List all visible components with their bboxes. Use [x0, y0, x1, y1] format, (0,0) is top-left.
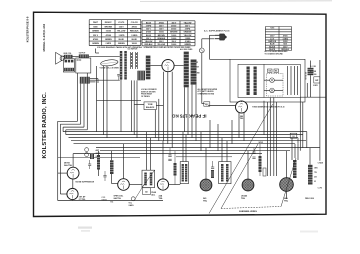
svg-text:F4: F4 — [293, 135, 295, 138]
resistor R-F (speaker field) — [308, 68, 314, 75]
svg-text:VOL: VOL — [129, 203, 132, 205]
wire bus 2 — [66, 134, 303, 136]
svg-text:BALANCE: BALANCE — [146, 106, 155, 109]
capacitor near gang — [117, 74, 120, 76]
wire plug lead along power unit top — [210, 58, 231, 60]
tapped winding strip S2 — [191, 60, 197, 85]
svg-text:350 V: 350 V — [185, 25, 190, 27]
power unit outer box — [230, 59, 305, 102]
svg-text:2MF: 2MF — [315, 80, 318, 82]
svg-text:TONE: TONE — [148, 104, 154, 106]
wire IF1 top stubs — [146, 132, 148, 171]
parts table 2 cell text — [144, 21, 192, 46]
svg-text:47000: 47000 — [132, 25, 137, 28]
svg-text:47000: 47000 — [171, 24, 176, 27]
svg-text:350 V: 350 V — [159, 25, 164, 27]
gang pointer line — [134, 181, 147, 201]
switch contact column 1 — [130, 52, 132, 69]
svg-text:GREEN: GREEN — [184, 44, 191, 46]
wire V5 top stub — [205, 148, 207, 180]
wire V4b top stub — [162, 141, 164, 179]
svg-text:KOLSTER RADIO, INC.: KOLSTER RADIO, INC. — [42, 92, 48, 159]
svg-text:AD: AD — [145, 190, 148, 193]
svg-text:MODEL K-130,K-132: MODEL K-130,K-132 — [42, 24, 46, 52]
wire bundle drop 3 — [83, 84, 85, 128]
svg-text:A.C. SUPPLEMENT PLUG: A.C. SUPPLEMENT PLUG — [204, 30, 230, 33]
svg-text:IF PEAK 175 KC: IF PEAK 175 KC — [171, 113, 206, 118]
wire strip drops — [184, 87, 186, 131]
coil strip S0 — [146, 56, 151, 80]
parts table 3 cell text — [268, 28, 289, 51]
svg-text:C-2 .5M: C-2 .5M — [310, 66, 316, 68]
fuse block on bus — [290, 133, 297, 138]
speaker coupling coil block — [64, 55, 73, 58]
small marks right of R4 — [263, 168, 266, 176]
svg-text:BROWN: BROWN — [158, 35, 166, 37]
voice coil oval — [100, 59, 118, 67]
wire caption stub — [95, 49, 97, 54]
svg-text:NOISE SUPPRESSOR: NOISE SUPPRESSOR — [76, 182, 95, 184]
svg-text:2 MFD: 2 MFD — [313, 85, 319, 87]
wire lamp leads — [264, 79, 270, 81]
wire bleeder feed — [309, 148, 311, 165]
svg-text:S-2 SWITCH: S-2 SWITCH — [128, 49, 139, 51]
capacitor cluster C3 — [168, 154, 171, 156]
wire V6 top stub — [247, 151, 249, 179]
grid resistor right of V7 — [293, 160, 297, 178]
wire stub row b — [176, 156, 232, 158]
svg-text:CHAS: CHAS — [318, 162, 324, 165]
svg-text:24A: 24A — [159, 195, 163, 198]
wire bus1 right drop — [306, 132, 308, 148]
page border frame — [34, 12, 327, 216]
svg-text:350 V: 350 V — [93, 35, 99, 37]
svg-text:350 V: 350 V — [171, 41, 176, 43]
wire V3 top stub — [123, 144, 125, 179]
svg-text:GREEN: GREEN — [92, 31, 99, 33]
svg-text:SUBPANEL WIRES: SUBPANEL WIRES — [239, 210, 257, 213]
svg-text:47000: 47000 — [283, 35, 288, 38]
svg-text:YELLOW: YELLOW — [117, 31, 125, 33]
resistor block under switch — [137, 71, 145, 81]
power unit divider — [263, 64, 265, 97]
wire V7 bottom stub — [286, 191, 288, 199]
svg-text:6500: 6500 — [283, 44, 287, 46]
svg-text:ORANGE: ORANGE — [157, 37, 166, 40]
wire V1 to V2 — [72, 179, 74, 188]
svg-text:2 MFD: 2 MFD — [185, 29, 191, 31]
svg-text:FIELD 2600: FIELD 2600 — [305, 198, 314, 200]
tuning gang strip 1 — [120, 51, 123, 80]
resistor R2 vertical — [110, 160, 114, 174]
wire bundle drop 2 — [80, 84, 82, 125]
svg-text:ORANGE: ORANGE — [184, 31, 193, 34]
svg-text:.5 MEG: .5 MEG — [282, 38, 288, 40]
svg-text:ANT: ANT — [96, 149, 100, 152]
svg-text:350 V: 350 V — [146, 38, 151, 40]
wire stub row a — [58, 157, 140, 159]
capacitor cluster C6 — [252, 151, 255, 153]
svg-text:YELLOW: YELLOW — [145, 41, 153, 43]
svg-text:BROWN: BROWN — [170, 32, 178, 34]
wire plug upper prong to chassis — [210, 34, 216, 36]
svg-text:180V: 180V — [314, 168, 319, 170]
rectifier tube V8 280 — [236, 101, 248, 113]
trimmer box under IF1 — [143, 188, 151, 195]
svg-text:BLUE: BLUE — [132, 39, 138, 41]
svg-text:SPKR COIL: SPKR COIL — [114, 196, 125, 198]
svg-text:125 V: 125 V — [159, 29, 164, 31]
long diagonal callout line — [209, 104, 273, 214]
svg-text:10000: 10000 — [132, 43, 137, 45]
component cluster C5 — [211, 166, 214, 168]
svg-text:DET.B: DET.B — [64, 163, 70, 165]
svg-text:YELLOW: YELLOW — [184, 35, 192, 37]
wire field coil leads east — [90, 78, 98, 80]
svg-text:RED-BLK: RED-BLK — [144, 44, 153, 46]
svg-text:C-15: C-15 — [102, 197, 106, 199]
svg-text:SWITCH SHOWN: SWITCH SHOWN — [141, 91, 156, 93]
faint page-top scan line — [140, 0, 332, 2]
tuning gang strip 2 — [124, 51, 127, 80]
svg-text:47000: 47000 — [171, 28, 176, 31]
svg-text:TML: TML — [241, 198, 246, 200]
tube V1 24A detector — [67, 167, 79, 179]
switch contact column 2 — [135, 52, 137, 69]
output choke coil block — [79, 54, 89, 58]
resistor R4 — [259, 156, 262, 172]
svg-text:BLACK: BLACK — [269, 45, 276, 48]
wire bus 3 — [69, 137, 299, 139]
oscillator tube V4 — [162, 60, 174, 72]
resistor R1 vertical — [97, 155, 100, 170]
wire speaker top lead — [63, 56, 64, 58]
IF transformer box 2 — [180, 162, 188, 184]
tapped winding strip S1 — [184, 52, 189, 88]
svg-text:BLUE: BLUE — [119, 39, 125, 41]
svg-text:VOICE COIL 2.8 OHMS: VOICE COIL 2.8 OHMS — [100, 68, 120, 70]
parts table 1 grid — [89, 20, 141, 46]
wire tone balance drops — [154, 110, 156, 138]
svg-text:245: 245 — [203, 197, 207, 200]
wire osc leads — [150, 65, 162, 67]
svg-text:.1 MFD: .1 MFD — [118, 35, 125, 37]
svg-text:10000: 10000 — [171, 44, 176, 46]
svg-text:GREEN: GREEN — [92, 43, 99, 45]
output transformer T-O — [63, 59, 74, 72]
svg-text:10000: 10000 — [283, 41, 288, 43]
svg-text:2 MFD: 2 MFD — [105, 43, 111, 45]
svg-text:TML: TML — [284, 201, 289, 203]
svg-text:350 V: 350 V — [171, 22, 176, 24]
svg-text:BLUE: BLUE — [146, 22, 152, 24]
wire V4b right stub — [169, 184, 181, 186]
capacitor C-R buffer — [204, 102, 210, 106]
wire rectifier plate lead — [208, 105, 235, 107]
svg-text:350 V: 350 V — [146, 29, 151, 31]
wire switch to rectifier filament — [201, 53, 203, 104]
wire bus 5 — [74, 143, 296, 145]
svg-text:GREEN: GREEN — [118, 43, 125, 45]
wire IF2 top stubs — [182, 132, 184, 162]
wires right of V7 — [291, 138, 293, 160]
parts table 2 grid — [142, 21, 195, 46]
svg-text:YELLOW: YELLOW — [157, 44, 165, 46]
capacitor C1 — [103, 174, 106, 176]
wire V2 bottom stub — [72, 199, 74, 202]
svg-text:1 MEG: 1 MEG — [185, 38, 191, 40]
svg-text:47000: 47000 — [93, 38, 98, 41]
wire tone balance leads — [134, 103, 144, 105]
wire V3 to IF1 — [129, 184, 142, 186]
speaker unit box — [76, 58, 91, 73]
antenna coil block — [90, 154, 94, 160]
wire oval drop — [96, 66, 98, 132]
wire bus 8 — [73, 153, 262, 155]
svg-text:UX245: UX245 — [241, 195, 248, 198]
svg-text:BROWN: BROWN — [105, 26, 113, 28]
subpanel right diagonal — [281, 158, 296, 207]
svg-text:2 MFD: 2 MFD — [146, 25, 152, 27]
svg-text:HUM COIL: HUM COIL — [64, 53, 72, 55]
svg-text:KOLSTER PAGE 8-9: KOLSTER PAGE 8-9 — [25, 16, 29, 42]
svg-text:.5 MEG: .5 MEG — [184, 41, 191, 43]
wire bus 6 — [96, 147, 320, 149]
wire bundle drop 1 — [77, 73, 79, 121]
wire bundle to output tube — [267, 102, 269, 176]
wire field to gang — [90, 79, 120, 81]
wire plug lower prong to switch — [202, 38, 215, 40]
svg-text:ALL RESISTORS RATED: ALL RESISTORS RATED — [198, 88, 218, 91]
svg-text:6500: 6500 — [93, 26, 97, 28]
dial lamp enclosure (dashed) — [267, 74, 284, 97]
svg-text:TML: TML — [159, 198, 164, 200]
AC plug P1 — [220, 34, 226, 40]
svg-text:BLACK: BLACK — [269, 48, 276, 51]
svg-text:RESIST.: RESIST. — [105, 22, 113, 24]
wire right column bus — [300, 96, 325, 98]
svg-text:1ST AF: 1ST AF — [79, 195, 87, 198]
svg-text:TUBE: TUBE — [270, 28, 274, 30]
wire bus 4 — [71, 140, 306, 142]
parts table 1 cell text — [92, 21, 139, 45]
power transformer T-P winding 1 — [247, 67, 250, 96]
svg-text:PEAK: PEAK — [151, 191, 156, 194]
power switch S1 — [199, 48, 204, 53]
wire V2 left stub — [60, 193, 67, 195]
svg-text:47000: 47000 — [106, 34, 111, 37]
secondary winding lines — [287, 66, 289, 95]
wire V7 top stub — [286, 151, 288, 178]
svg-text:VOLTS: VOLTS — [118, 22, 125, 24]
tube V3 24A — [118, 179, 130, 191]
condenser block C-F — [314, 77, 320, 83]
subpanel left diagonal — [221, 144, 258, 209]
svg-text:OTHERWISE NOTED: OTHERWISE NOTED — [198, 93, 215, 95]
svg-text:RED-BLK: RED-BLK — [281, 49, 289, 51]
trimmer condenser pair — [85, 148, 89, 152]
svg-text:10000: 10000 — [171, 38, 176, 40]
svg-text:24A: 24A — [284, 197, 288, 200]
resistor R3 — [174, 163, 177, 176]
wire rectifier top to power unit — [241, 101, 243, 102]
speaker field coil block — [80, 77, 90, 84]
wire IF3 top stubs — [221, 138, 223, 162]
wire power unit divider drop — [263, 101, 265, 135]
volume control VC — [131, 197, 135, 201]
tube V2 first audio — [67, 188, 78, 199]
parts table 3 grid — [265, 27, 291, 51]
svg-text:125 V: 125 V — [119, 26, 125, 28]
wire rectifier cathode drops — [238, 113, 240, 138]
ballast resistor block a — [268, 69, 273, 72]
wire horizontal mid-left — [97, 99, 142, 101]
svg-text:TML: TML — [203, 200, 208, 202]
svg-text:10000: 10000 — [159, 32, 164, 34]
ballast resistor block b — [274, 69, 279, 72]
IF transformer box 3 — [219, 162, 231, 184]
svg-text:YELLOW: YELLOW — [184, 22, 192, 24]
wire bus 1 — [63, 131, 307, 133]
IF transformer box 1 — [142, 170, 155, 187]
svg-text:TML: TML — [240, 118, 245, 120]
power transformer T-P winding 2 — [254, 67, 257, 96]
pilot lamp L2 — [270, 88, 275, 93]
loudspeaker cone — [56, 52, 62, 64]
capacitor C2 near V1 — [88, 163, 91, 165]
tube V4b 24A — [157, 179, 168, 190]
ghost smudge left — [78, 227, 92, 229]
svg-text:OUTPUT: OUTPUT — [79, 53, 86, 55]
subpanel dashed line — [221, 207, 281, 209]
tone balance box — [144, 102, 156, 110]
svg-text:.5 MEG: .5 MEG — [131, 35, 138, 37]
wire speaker box drops — [103, 66, 105, 135]
svg-text:COLOR: COLOR — [131, 22, 138, 24]
svg-text:R-6: R-6 — [111, 202, 114, 204]
svg-text:47000: 47000 — [146, 31, 151, 34]
wire V1 top stub — [72, 154, 74, 168]
wire gang drops — [120, 80, 122, 132]
svg-text:RED-BLK: RED-BLK — [130, 31, 139, 33]
wire power box right drops — [299, 98, 301, 151]
bleeder resistor strip — [308, 165, 313, 185]
svg-text:SP. PLUG: SP. PLUG — [304, 72, 306, 80]
power unit inner box — [238, 64, 300, 97]
svg-text:0V: 0V — [314, 181, 317, 183]
svg-text:SPEAKER FIELD USED AS FILTER C: SPEAKER FIELD USED AS FILTER CHOKE 2600 … — [144, 46, 192, 49]
wire bottom return — [58, 200, 163, 202]
wire bus 7 — [100, 150, 290, 152]
wire bundle drop 4 — [86, 73, 88, 130]
svg-text:10000: 10000 — [106, 31, 111, 33]
svg-text:75V: 75V — [314, 172, 318, 174]
svg-text:LOCAL DISTANCE: LOCAL DISTANCE — [141, 88, 158, 91]
svg-text:TONE GENERATOR CONN. SEE PG 8-: TONE GENERATOR CONN. SEE PG 8-10 — [252, 105, 284, 108]
svg-text:MAROON: MAROON — [268, 40, 276, 43]
svg-text:PART: PART — [93, 21, 99, 24]
svg-text:GREEN: GREEN — [105, 39, 112, 41]
svg-text:350 V: 350 V — [159, 41, 164, 43]
ghost smudge right — [300, 231, 318, 233]
svg-text:22V: 22V — [314, 177, 318, 179]
svg-text:280: 280 — [240, 116, 244, 118]
svg-text:10000: 10000 — [171, 35, 176, 37]
svg-text:47000: 47000 — [159, 21, 164, 24]
svg-text:BLUE: BLUE — [146, 35, 152, 37]
wire osc drops — [162, 72, 164, 141]
wire mid verticals — [200, 132, 202, 151]
svg-text:C.7M: C.7M — [318, 188, 323, 190]
pilot lamp L1 — [270, 78, 275, 83]
wire V1 left stub — [58, 172, 67, 174]
svg-text:30000: 30000 — [96, 153, 101, 155]
